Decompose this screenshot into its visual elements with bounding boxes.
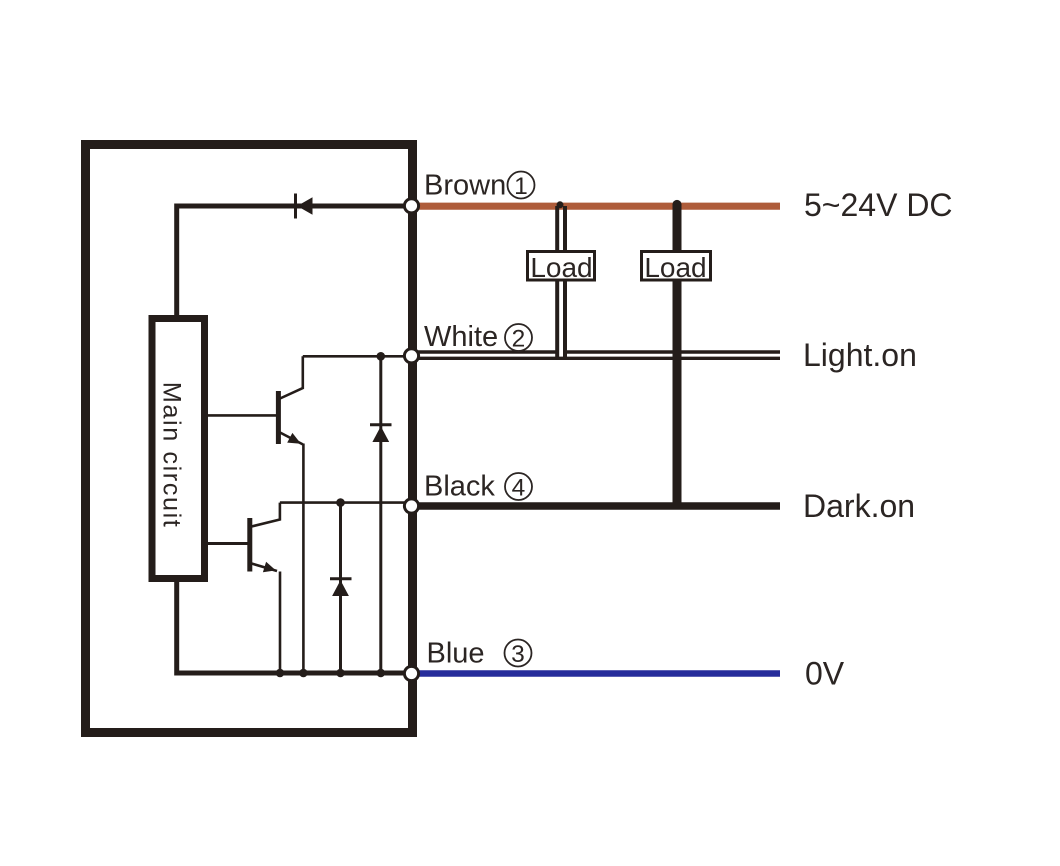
svg-text:Load: Load	[530, 252, 592, 283]
junction node on white wire	[377, 352, 386, 361]
svg-text:Dark.on: Dark.on	[803, 488, 915, 524]
pin number 1 circled	[508, 172, 535, 199]
diode D3 arrow (points left)	[297, 197, 312, 214]
svg-text:Blue: Blue	[427, 638, 485, 670]
brown wire 5~24V DC	[413, 203, 780, 210]
transistor Q2 base bar	[247, 518, 252, 572]
terminal 1 brown	[404, 199, 418, 213]
pin number 4 circled	[505, 473, 532, 500]
junction node on 0V rail (Q2 emitter)	[276, 669, 285, 678]
terminal 4 black	[404, 499, 418, 513]
svg-text:0V: 0V	[805, 656, 845, 692]
main circuit box	[152, 319, 205, 579]
wire: Q2 collector to black terminal	[280, 501, 412, 504]
transistor Q1 base bar	[276, 391, 281, 444]
sensor body outer box	[86, 145, 413, 733]
load 1 hollow wire lower segment	[555, 281, 559, 358]
wire: black node to 0V (through diode D2)	[339, 503, 342, 673]
svg-text:Brown: Brown	[424, 170, 506, 202]
node on brown wire	[557, 201, 564, 208]
svg-text:5~24V DC: 5~24V DC	[804, 187, 953, 223]
terminal 2 white	[404, 349, 418, 363]
svg-text:White: White	[424, 321, 498, 353]
black wire	[413, 502, 780, 510]
diode D2 cathode bar	[330, 577, 352, 580]
svg-text:Load: Load	[644, 252, 706, 283]
svg-text:Light.on: Light.on	[803, 337, 917, 373]
svg-text:4: 4	[512, 475, 526, 502]
wire: Q1 collector to white terminal	[303, 355, 412, 358]
junction node on 0V rail (D1 branch)	[377, 669, 386, 678]
wire: base of Q1	[206, 414, 276, 417]
junction node on black wire	[336, 498, 345, 507]
wire: Q2 emitter down to 0V rail	[279, 572, 282, 674]
junction node on 0V rail (Q1 emitter)	[299, 669, 308, 678]
pin number 3 circled	[505, 640, 532, 667]
transistor Q1 collector	[280, 356, 303, 398]
svg-text:Main circuit: Main circuit	[157, 382, 185, 529]
blue wire 0V	[415, 670, 780, 677]
pin number 2 circled	[505, 324, 532, 351]
svg-text:Black: Black	[424, 471, 495, 503]
white wire (hollow) top line	[417, 350, 558, 353]
junction node on 0V rail (D2 branch)	[336, 669, 345, 678]
wire: white node to 0V (through diode D1)	[379, 356, 382, 673]
transistor Q1 emitter with arrow	[280, 433, 303, 445]
load box 2	[642, 252, 711, 281]
svg-text:2: 2	[512, 326, 526, 353]
diode D1 cathode bar	[370, 423, 392, 426]
white wire (hollow) bottom line	[417, 357, 780, 360]
transistor Q2 emitter with arrow	[252, 564, 278, 572]
load 2 black wire through second load	[673, 205, 682, 507]
transistor Q2 collector	[252, 503, 280, 527]
diode D3 reverse-protection (cathode bar)	[294, 194, 297, 219]
wire: base of Q2	[206, 542, 248, 545]
diode D1 arrow (points up)	[372, 426, 389, 442]
load box 1	[528, 252, 595, 281]
svg-text:1: 1	[514, 173, 528, 200]
load 1 hollow wire upper segment	[555, 206, 559, 250]
node on brown wire	[672, 200, 681, 209]
wire: brown terminal to main circuit (internal V+ wire)	[177, 206, 412, 316]
diode D2 arrow (points up)	[332, 580, 349, 596]
svg-text:3: 3	[511, 641, 525, 668]
wire: Q1 emitter down to 0V rail	[302, 444, 305, 674]
terminal 3 blue	[404, 666, 418, 680]
wire: main circuit bottom to blue terminal (internal 0V wire)	[177, 580, 412, 673]
